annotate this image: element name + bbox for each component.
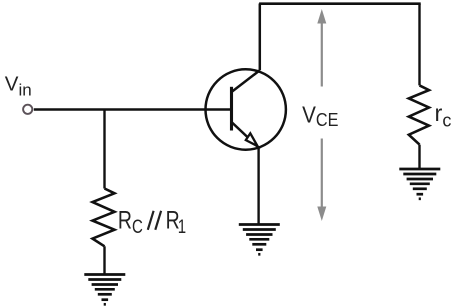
wire emitter down <box>257 147 259 225</box>
label // slash 2 <box>155 211 161 230</box>
svg-text:rc: rc <box>435 100 451 131</box>
label // slash 1 <box>148 211 154 230</box>
svg-text:R1: R1 <box>166 207 186 238</box>
ground (emitter) <box>239 225 280 255</box>
VCE arrow up <box>317 9 326 87</box>
transistor collector lead <box>232 70 260 92</box>
ground (RC//R1) <box>84 275 125 305</box>
VCE arrow down <box>317 139 326 222</box>
wire collector up <box>259 4 262 71</box>
wire base <box>34 108 232 110</box>
transistor emitter lead <box>232 122 259 148</box>
wire rc down from top <box>418 4 420 86</box>
wire to RC//R1 <box>103 110 105 189</box>
resistor RC//R1 <box>93 189 115 247</box>
ground (rc) <box>399 169 440 199</box>
emitter arrowhead <box>246 133 258 146</box>
wire RC//R1 to ground <box>103 246 105 274</box>
resistor rc <box>409 85 429 144</box>
svg-text:VCE: VCE <box>302 101 338 130</box>
input terminal V_in <box>23 105 32 114</box>
transistor Q1 body circle <box>206 69 286 149</box>
transistor base bar <box>230 87 233 131</box>
wire top <box>259 2 421 5</box>
wire rc to ground <box>418 145 420 169</box>
svg-text:Vin: Vin <box>5 72 32 99</box>
svg-text:RC: RC <box>118 207 143 238</box>
